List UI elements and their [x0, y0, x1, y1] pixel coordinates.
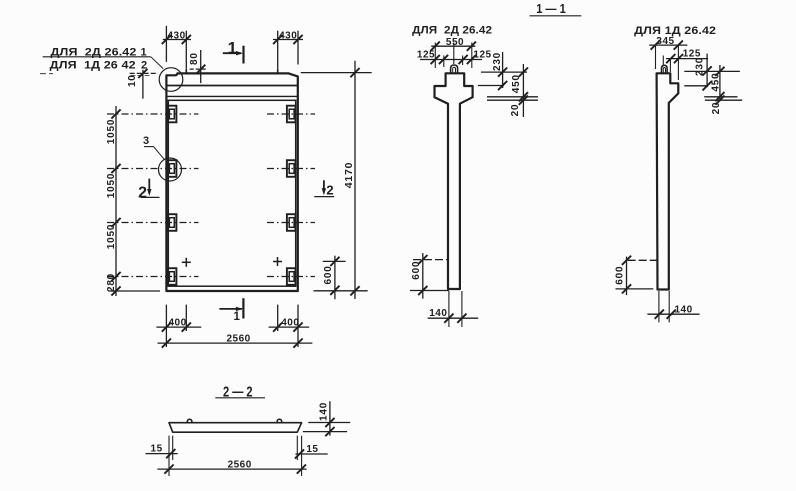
- cross mark left: [182, 261, 191, 263]
- svg-text:1050: 1050: [106, 119, 117, 144]
- svg-text:400: 400: [281, 318, 299, 329]
- svg-text:20: 20: [711, 102, 722, 115]
- svg-text:430: 430: [279, 30, 297, 41]
- svg-text:140: 140: [319, 402, 330, 421]
- dimension 140 (section 2-2 thickness): [329, 401, 331, 436]
- svg-text:ДЛЯ 2Д 26.42: ДЛЯ 2Д 26.42: [412, 24, 492, 36]
- svg-text:140: 140: [429, 308, 447, 319]
- embedded plate right row 1: [287, 106, 296, 123]
- svg-text:1: 1: [228, 38, 238, 57]
- svg-text:2: 2: [138, 185, 147, 202]
- svg-text:2: 2: [326, 183, 334, 198]
- dimension line 125+125 (section 1-1): [420, 59, 482, 61]
- extension lines right of section 1-1 head: [481, 71, 527, 73]
- dimension 450 (right section): [719, 65, 721, 101]
- extension lines above right section head: [655, 46, 657, 69]
- dimension 550 (section 1-1 head width): [431, 45, 475, 47]
- right section column body (single ledge): [657, 73, 679, 289]
- dimension 345 (right section): [649, 44, 687, 46]
- svg-text:230: 230: [492, 52, 503, 71]
- leader from labels to corner detail circle: [151, 57, 163, 69]
- dimension 600 (right section): [626, 257, 628, 296]
- left dimension line column (1050 pitches and 280): [115, 106, 117, 296]
- svg-text:3: 3: [143, 135, 150, 147]
- panel inner rectangle: [168, 100, 295, 286]
- centre line right row 3: [267, 222, 315, 224]
- svg-text:2560: 2560: [226, 334, 250, 345]
- svg-text:2560: 2560: [228, 459, 252, 470]
- lifting loop on section 1-1 head: [451, 65, 458, 73]
- lifting loop on right section head: [662, 65, 668, 73]
- dimension 4170 overall height: [354, 61, 356, 299]
- svg-text:80: 80: [189, 52, 200, 65]
- embedded plate right row 3: [287, 214, 296, 231]
- centre line left row 4: [107, 276, 199, 278]
- dimension 15 left (section 2-2): [168, 436, 170, 476]
- dimension 430 top-left: [165, 26, 167, 62]
- svg-text:600: 600: [614, 266, 625, 285]
- embedded plate right row 2: [287, 160, 296, 177]
- dimension 140 (right section stem width): [658, 291, 660, 322]
- cross mark right: [273, 261, 282, 263]
- svg-text:15: 15: [151, 444, 163, 455]
- centre line right row 1: [267, 113, 315, 115]
- dimension 400 bottom-right: [277, 305, 279, 331]
- margin dash left of 10-dimension: [40, 73, 53, 75]
- extension line bottom-left from panel base: [109, 290, 160, 292]
- top fixing stub right: [277, 69, 279, 74]
- centre line left row 2: [107, 168, 199, 170]
- embedded plate left row 2: [168, 160, 177, 177]
- dimension 20 (section 1-1): [519, 96, 528, 105]
- extension lines right of right-section head: [684, 70, 740, 72]
- svg-text:140: 140: [675, 305, 693, 316]
- dimension 80 (cap height): [200, 50, 202, 83]
- dimension 450 (section 1-1): [522, 64, 524, 117]
- svg-text:2: 2: [141, 60, 148, 72]
- centre line left row 3: [107, 222, 199, 224]
- centre line left row 1: [107, 113, 199, 115]
- dimension 140 (section 1-1 stem width): [448, 291, 450, 327]
- svg-text:15: 15: [306, 444, 318, 455]
- svg-text:1 — 1: 1 — 1: [536, 1, 566, 16]
- lifting loop right (section 2-2): [277, 419, 282, 422]
- centre line right row 2: [267, 168, 315, 170]
- dimension 2560 overall width (front): [158, 342, 313, 344]
- svg-text:4170: 4170: [343, 162, 355, 189]
- section 2-2 slab body: [169, 423, 302, 433]
- svg-text:430: 430: [168, 30, 186, 41]
- section mark 1 bottom: [219, 308, 242, 310]
- svg-text:1050: 1050: [106, 173, 117, 198]
- centre line right row 4: [267, 276, 315, 278]
- dimension 430 top-right: [277, 31, 279, 69]
- detail circle 3 around left plate row 2: [159, 158, 182, 181]
- svg-text:1: 1: [233, 311, 240, 323]
- section mark 2 right: [323, 180, 325, 192]
- svg-text:10: 10: [127, 74, 138, 87]
- svg-text:550: 550: [446, 37, 464, 48]
- dimension 600 (front, embedment): [334, 256, 336, 300]
- extension lines above section 1-1 head: [434, 43, 436, 69]
- svg-text:600: 600: [411, 261, 422, 280]
- underline of variant label: [43, 56, 151, 58]
- svg-text:1050: 1050: [106, 224, 117, 249]
- svg-text:230: 230: [695, 57, 706, 76]
- embedded plate left row 4: [168, 268, 177, 285]
- dimension 600 (section 1-1): [422, 253, 424, 299]
- dimension 125 (right section): [666, 58, 708, 60]
- svg-text:125: 125: [473, 50, 491, 61]
- top fixing stub left: [185, 69, 187, 74]
- dimension 400 bottom-left: [165, 305, 167, 347]
- section mark 1 top: [223, 52, 241, 54]
- embedded plate left row 3: [168, 214, 177, 231]
- dimension 230 (right section): [706, 54, 708, 88]
- svg-text:400: 400: [169, 318, 187, 329]
- dimension 230 (section 1-1): [502, 52, 504, 88]
- svg-text:20: 20: [510, 104, 521, 117]
- section 1-1 column body (T-head with stem): [435, 73, 473, 289]
- svg-text:450: 450: [511, 74, 522, 93]
- svg-text:280: 280: [106, 273, 117, 292]
- svg-text:ДЛЯ 1Д 26 42: ДЛЯ 1Д 26 42: [50, 60, 136, 72]
- section mark 2 left: [148, 179, 150, 193]
- dimension 20 (right section): [715, 96, 724, 105]
- lifting loop left (section 2-2): [187, 419, 192, 422]
- dimension 15 right (section 2-2): [301, 436, 303, 476]
- dimension 10 (corner rebate): [142, 70, 144, 99]
- svg-text:345: 345: [656, 36, 674, 47]
- panel cap line upper: [167, 85, 298, 87]
- embedded plate left row 1: [168, 106, 177, 123]
- svg-text:450: 450: [711, 73, 722, 92]
- dimension 2560 (section 2-2): [157, 468, 306, 470]
- embedded plate right row 4: [287, 268, 296, 285]
- panel outline (front elevation) with top corner rebate and chamfered top-right corner: [166, 73, 297, 291]
- detail circle around top-left corner (node 1/2): [159, 68, 183, 92]
- svg-text:125: 125: [417, 50, 435, 61]
- svg-text:600: 600: [323, 265, 334, 284]
- panel cap line lower: [167, 95, 298, 97]
- svg-text:ДЛЯ 1Д 26.42: ДЛЯ 1Д 26.42: [634, 25, 716, 37]
